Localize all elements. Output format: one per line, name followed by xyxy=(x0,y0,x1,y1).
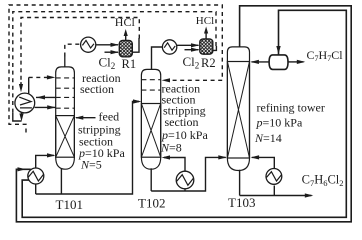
arrow into drum top xyxy=(276,46,280,54)
wire R2 outlet elbow to recycle B xyxy=(213,46,217,50)
svg-text:N=14: N=14 xyxy=(254,131,282,145)
tower T103 shell xyxy=(227,47,249,171)
T101 tray dashed lines xyxy=(56,77,75,79)
T103 packing X section xyxy=(227,62,249,159)
heat exchanger E1 (left feed/recycle exchanger) xyxy=(15,93,35,113)
wire inner solid loop: drum top line, down right side, along bottom, up to heater bottom xyxy=(22,10,346,217)
wire E1 return to T101 xyxy=(35,106,56,108)
svg-text:section: section xyxy=(80,82,114,96)
heat exchanger E3 (R2 loop heater) xyxy=(162,40,176,54)
wire T103 bottoms product line C7H6Cl2 xyxy=(240,195,312,197)
wire drum reflux to T103 xyxy=(252,61,270,63)
svg-text:refining tower: refining tower xyxy=(257,100,325,114)
wire E1 top right stub to T101 upper inlet xyxy=(28,77,30,93)
wire T102 bottoms line to T103 feed xyxy=(151,157,226,191)
wire E5 bottom stub xyxy=(184,189,186,191)
reactor R2 xyxy=(200,39,213,54)
wire E6 top to T103 bottom section xyxy=(252,157,274,168)
svg-text:Cl2: Cl2 xyxy=(99,54,116,71)
wire T103 bottom stub xyxy=(239,170,241,196)
arrow on recycle feed into heater xyxy=(18,167,27,171)
wire feed arrow into T101 xyxy=(76,117,96,119)
wire Cl2 feed to R1 xyxy=(105,51,119,53)
heat exchanger E6 (T103 reboiler) xyxy=(266,169,282,185)
tower T102 shell xyxy=(141,69,160,169)
wire E4 bottom stub xyxy=(35,184,37,194)
wire R2 HCl vent arrow xyxy=(205,32,207,39)
wire dashed recycle loop A: from R1 outlet up, across third top line, down to left exchanger top xyxy=(21,18,139,85)
svg-text:Cl2: Cl2 xyxy=(183,54,200,71)
svg-text:C7H7Cl: C7H7Cl xyxy=(307,48,344,63)
wire solid elbow of loop B into junction xyxy=(13,112,22,121)
wire E4 top to T101 bottom section xyxy=(36,155,54,168)
wire Cl2 feed to R2 xyxy=(185,49,199,51)
svg-text:N=8: N=8 xyxy=(160,141,182,155)
svg-text:HCl: HCl xyxy=(115,15,136,29)
svg-text:p=10 kPa: p=10 kPa xyxy=(256,116,303,130)
condenser drum D1 xyxy=(269,55,288,70)
svg-text:N=5: N=5 xyxy=(80,157,102,171)
wire E1 bottom stub with down arrow to junction xyxy=(21,113,23,116)
wire T101 side draw to E1 xyxy=(36,96,56,98)
wire dashed recycle loop B: from R2 outlet up, across second top line, down left side to exchanger bottom junction xyxy=(13,12,216,113)
wire R1 outlet elbow to recycle A xyxy=(132,38,139,52)
svg-text:R2: R2 xyxy=(201,56,216,70)
svg-text:HCl: HCl xyxy=(196,15,214,27)
wire R1 HCl vent arrow xyxy=(125,34,127,41)
wire E3 to R2 with arrow xyxy=(177,44,199,46)
svg-text:T102: T102 xyxy=(138,196,165,211)
wire T102 bottom stub xyxy=(150,168,152,191)
svg-text:C7H6Cl2: C7H6Cl2 xyxy=(302,173,344,188)
reactor R1 xyxy=(119,40,132,56)
wire T101 bottom stub xyxy=(60,168,62,194)
T101 packing X section xyxy=(56,116,75,158)
svg-text:T103: T103 xyxy=(228,195,255,210)
wire dashed recycle loop C: from T101 feed heater area up left side, across top, down at right to T102 upper arrow xyxy=(9,5,222,133)
heat exchanger E5 (T102 reboiler) xyxy=(176,171,194,189)
wire T101 bottoms line to T102 feed xyxy=(36,102,139,195)
svg-text:T101: T101 xyxy=(56,197,83,212)
wire drum product out C7H7Cl xyxy=(288,61,304,63)
heat exchanger E4 (T101 feed heater / reboiler) xyxy=(28,168,44,184)
arrow into T102 right wall xyxy=(162,78,171,82)
tower T101 shell xyxy=(56,67,75,169)
wire solid arrow of loop A into exchanger top xyxy=(20,82,22,87)
wire dashed T101 overhead to R1 exchanger xyxy=(65,44,81,56)
wire E6 bottom stub xyxy=(273,186,275,196)
svg-text:R1: R1 xyxy=(122,57,137,71)
wire E5 top to T102 bottom section xyxy=(164,158,185,172)
T101 top vapor stub xyxy=(64,57,66,68)
heat exchanger E2 (R1 loop heater) xyxy=(81,37,96,52)
wire E2 to R1 with arrow xyxy=(96,44,118,46)
T102 packing X section xyxy=(141,104,160,158)
wire T102 overhead to R2 exchanger xyxy=(152,47,163,70)
T102 tray dashed lines xyxy=(141,79,160,81)
